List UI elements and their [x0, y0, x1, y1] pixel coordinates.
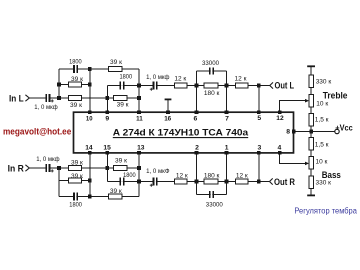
node A junction (In L): [57, 96, 61, 100]
pin 1 rail junction: [225, 180, 229, 184]
+Vcc terminal: [335, 123, 353, 133]
wire node B / pin 10 vertical: [89, 69, 91, 112]
resistor R17 1,5k: [309, 138, 313, 151]
Out L terminal: [270, 81, 295, 91]
wire stage2 rail L y=85.5: [107, 85, 269, 87]
pin 3 edge dot: [257, 151, 261, 155]
pin 15 edge dot: [106, 151, 110, 155]
pin 15 rail junction: [106, 166, 110, 170]
capacitor C2 1,0mk (In R coupling): [45, 164, 53, 172]
wire pin 11 vertical: [138, 69, 140, 112]
pin 9 edge dot: [106, 110, 110, 114]
node B2 bottom junction: [88, 195, 92, 199]
svg-text:1, 0 мкФ: 1, 0 мкФ: [146, 168, 169, 175]
wire right chain vertical: [310, 66, 312, 195]
In R terminal: [8, 163, 30, 173]
pin 6 rail junction: [195, 84, 199, 88]
svg-text:8: 8: [286, 128, 290, 135]
svg-text:39 к: 39 к: [71, 173, 83, 180]
resistor R1 39k (In L rail): [68, 96, 81, 101]
svg-text:39 к: 39 к: [71, 76, 83, 83]
svg-text:12 к: 12 к: [235, 76, 247, 83]
resistor R11 39k (In R rail 2): [114, 166, 127, 171]
capacitor C7 1,0mkF (stage2 L coupling): [150, 82, 158, 91]
pin 9 rail junction: [106, 96, 110, 100]
svg-text:6: 6: [194, 116, 198, 123]
resistor R3 39k (top row L): [108, 67, 121, 72]
resistor R18 330k: [309, 176, 313, 189]
svg-text:39 к: 39 к: [115, 157, 127, 164]
capacitor C4 1800 (bottom row R): [73, 193, 78, 201]
wire In R rail y=168: [29, 167, 139, 169]
resistor R14 39k (bottom row R): [108, 194, 121, 199]
svg-text:330 к: 330 к: [316, 180, 332, 187]
svg-text:15: 15: [103, 145, 111, 152]
ground bar top: [307, 65, 315, 67]
svg-text:1, 0 мкф: 1, 0 мкф: [146, 74, 170, 81]
ground bar pin 16: [165, 99, 172, 112]
svg-text:180 к: 180 к: [204, 90, 220, 97]
pin 12 edge dot: [278, 110, 282, 114]
wire pin 15 vertical: [106, 153, 108, 182]
pin 13 rail junction: [137, 166, 141, 170]
resistor R16 1,5k: [309, 114, 313, 127]
pin 7 rail junction: [225, 84, 229, 88]
svg-text:12 к: 12 к: [176, 173, 188, 180]
capacitor C3 1800 (top row L): [73, 65, 78, 73]
resistor R5 12k (stage2 L): [174, 83, 187, 88]
right chain junction at Vcc: [309, 130, 313, 134]
resistor R2 39k (A-B): [68, 82, 81, 87]
svg-text:5: 5: [257, 115, 261, 122]
resistor R15 330k: [309, 75, 313, 88]
wire pin 2 vertical: [196, 153, 198, 195]
capacitor C9 33000 (bridge L): [209, 68, 214, 75]
node B2-R12 junction: [88, 179, 92, 183]
node A2 junction (In R): [57, 166, 61, 170]
pin 5 rail junction: [257, 84, 261, 88]
svg-text:+Vcc: +Vcc: [335, 123, 353, 132]
svg-text:12 к: 12 к: [236, 173, 248, 180]
svg-text:1,5 к: 1,5 к: [315, 116, 329, 123]
resistor R9 12k (out L): [236, 83, 249, 88]
svg-text:180 к: 180 к: [204, 173, 220, 180]
svg-text:330 к: 330 к: [316, 78, 332, 85]
svg-text:3: 3: [258, 145, 262, 152]
wire pin 9 vertical: [106, 86, 108, 113]
svg-text:In R: In R: [8, 163, 25, 173]
svg-text:1: 1: [225, 145, 229, 152]
svg-text:39 к: 39 к: [117, 102, 129, 109]
resistor R4 39k (In L rail 2): [114, 96, 127, 101]
ground bar bottom: [307, 194, 315, 196]
capacitor C6 1800 (stage2 R): [120, 178, 125, 186]
wire pin 13 vertical: [138, 153, 140, 197]
resistor R12 39k (A2-B2): [68, 178, 81, 183]
svg-text:1800: 1800: [123, 172, 136, 179]
wire pin 4 to bass wiper: [280, 153, 306, 163]
resistor R10 39k (In R rail): [68, 166, 81, 171]
svg-text:Out L: Out L: [275, 81, 295, 91]
pin 8 wire to +Vcc: [294, 131, 335, 133]
svg-text:39 к: 39 к: [110, 188, 122, 195]
pin 1 edge dot: [225, 151, 229, 155]
pin 11 rail crossing junction: [137, 96, 141, 100]
svg-text:4: 4: [278, 145, 282, 152]
resistor R8 180k (stage2 R): [204, 179, 218, 184]
svg-text:12: 12: [276, 115, 284, 122]
node B top junction: [88, 67, 92, 71]
svg-text:9: 9: [105, 116, 109, 123]
svg-text:16: 16: [164, 116, 171, 123]
svg-text:Регулятор тембра: Регулятор тембра: [294, 207, 357, 216]
wire 33000 bottom bridge: [197, 194, 227, 196]
svg-text:1, 0 мкф: 1, 0 мкф: [34, 104, 58, 111]
svg-text:39 к: 39 к: [70, 102, 82, 109]
wire node A2 vertical: [58, 168, 60, 197]
wire pin 6 vertical: [196, 71, 198, 112]
svg-text:A 274d К 174УН10 ТСА 740a: A 274d К 174УН10 ТСА 740a: [113, 128, 249, 138]
pin 10 edge dot: [88, 110, 92, 114]
wire 39k A2-B2 row y=180.5: [59, 180, 90, 182]
capacitor C10 33000 (bridge R): [209, 191, 214, 198]
svg-text:12 к: 12 к: [174, 76, 186, 83]
svg-text:10 к: 10 к: [316, 159, 328, 166]
pin 2 edge dot: [195, 151, 199, 155]
op-amp IC U1 body K174UN10: [74, 112, 294, 153]
wire pin 12 to treble wiper: [280, 101, 306, 112]
wire pin 1 vertical: [226, 153, 228, 195]
svg-text:7: 7: [225, 116, 229, 123]
svg-text:1,5 к: 1,5 к: [315, 142, 329, 149]
svg-text:Treble: Treble: [323, 91, 348, 102]
svg-text:33000: 33000: [202, 60, 219, 67]
wire In L rail y=98: [29, 97, 139, 99]
svg-text:1, 0 мкф: 1, 0 мкф: [36, 156, 60, 163]
svg-text:39 к: 39 к: [110, 59, 122, 66]
wire node B2 / pin 14 vertical: [89, 153, 91, 197]
Out R terminal: [270, 177, 296, 187]
pin 13 edge dot: [137, 151, 141, 155]
potentiometer P2 10k Bass: [305, 157, 313, 170]
capacitor C8 1,0mkF (stage2 R coupling): [150, 178, 158, 187]
svg-text:33000: 33000: [206, 202, 223, 209]
pin 16 edge dot: [166, 110, 170, 114]
pin 14 edge dot: [88, 151, 92, 155]
wire top row L y=69: [59, 68, 139, 70]
pin 4 edge dot: [278, 151, 282, 155]
pin 13 stage2 junction: [137, 180, 141, 184]
resistor R13 12k (out R): [236, 179, 249, 184]
svg-text:13: 13: [137, 145, 145, 152]
wire 39k A-B row y=84.5: [59, 84, 90, 86]
svg-text:14: 14: [85, 145, 93, 152]
wire stage2 rail R y=181.5: [107, 181, 269, 183]
svg-text:39 к: 39 к: [71, 159, 83, 166]
svg-text:In L: In L: [9, 93, 24, 103]
svg-text:Out R: Out R: [274, 177, 295, 187]
svg-text:1800: 1800: [69, 59, 82, 66]
svg-text:2: 2: [195, 145, 199, 152]
svg-text:10: 10: [86, 116, 93, 123]
wire node A vertical: [58, 69, 60, 98]
pin 6 edge dot: [195, 110, 199, 114]
svg-text:10 к: 10 к: [316, 101, 328, 108]
wire pin 7 vertical: [226, 71, 228, 112]
resistor R6 12k (stage2 R): [174, 179, 187, 184]
pin 8 junction: [292, 130, 296, 134]
In L terminal: [9, 93, 29, 103]
wire 33000 top bridge: [197, 70, 227, 72]
wire bottom row R y=196.5: [59, 196, 139, 198]
capacitor C5 1800 (stage2 L): [120, 82, 125, 90]
wire pin 5 vertical: [258, 86, 260, 113]
resistor R7 180k (stage2 L): [204, 83, 218, 88]
svg-text:1800: 1800: [69, 202, 82, 209]
wire pin 3 vertical: [258, 153, 260, 182]
pin 3 rail junction: [257, 180, 261, 184]
IC U1 part number label: [113, 128, 249, 138]
pin 2 rail junction: [195, 180, 199, 184]
svg-text:11: 11: [136, 116, 143, 123]
potentiometer P1 10k Treble: [305, 95, 313, 108]
capacitor C1 1,0mk (In L coupling): [45, 94, 53, 102]
pin 11 edge dot: [137, 110, 141, 114]
pin 5 edge dot: [257, 110, 261, 114]
pin 11 node junction (stage2): [137, 84, 141, 88]
svg-text:megavolt@hot.ee: megavolt@hot.ee: [3, 126, 71, 136]
node A-R2 junction: [57, 83, 61, 87]
svg-text:1800: 1800: [120, 74, 133, 81]
pin 7 edge dot: [225, 110, 229, 114]
node B-R2 junction: [88, 83, 92, 87]
